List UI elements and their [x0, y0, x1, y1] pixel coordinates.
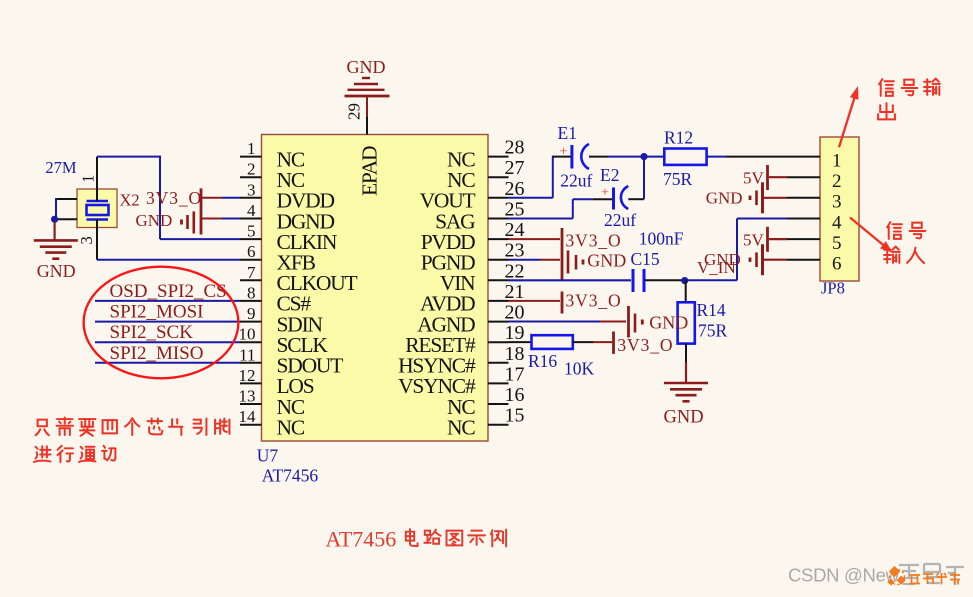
svg-text:75R: 75R: [663, 169, 693, 189]
annotation text: for communication: [34, 446, 50, 462]
wire crystal pin1 to CLKIN pin5: [97, 156, 240, 240]
connector JP8 body: [820, 137, 859, 281]
svg-text:21: 21: [505, 281, 525, 303]
svg-text:4: 4: [247, 201, 256, 220]
wire E1 to junction node: [589, 156, 664, 158]
wire net SPI2_MISO to pin 11: [95, 362, 240, 364]
wire VIN pin22 to C15: [509, 279, 632, 281]
junction node E1/E2/R12: [640, 153, 647, 160]
JP8 pin 2 stub: [787, 176, 820, 178]
svg-text:R14: R14: [697, 300, 726, 320]
wire DVDD pin3 to 3V3_O: [201, 197, 240, 199]
wire R16 to 3V3_O: [573, 341, 612, 343]
pin 14 (NC) left stub, number, name: [239, 407, 305, 439]
pin 22 (VIN) right stub, number, name: [440, 260, 525, 295]
wire net OSD_SPI2_CS to pin 8: [95, 300, 240, 302]
svg-text:GND: GND: [649, 313, 688, 333]
svg-text:7: 7: [247, 263, 256, 282]
pin 3 (DVDD) left stub, number, name: [240, 180, 334, 212]
svg-text:8: 8: [247, 283, 256, 302]
wire RESET# pin19 to R16: [509, 341, 532, 343]
wire V_IN junction to JP8 pin4: [687, 219, 787, 281]
svg-text:25: 25: [505, 199, 525, 221]
pin 24 (PVDD) right stub, number, name: [421, 219, 525, 254]
svg-text:22uf: 22uf: [560, 171, 592, 191]
pin 4 (DGND) left stub, number, name: [240, 201, 334, 233]
pin 15 (NC) right stub, number, name: [447, 405, 524, 440]
annotation text: only four chip pins needed: [36, 420, 49, 436]
svg-text:1: 1: [832, 151, 842, 172]
power port 3V3_O bar at PVDD merged with PGND ground big bar: [561, 228, 564, 280]
svg-text:E1: E1: [558, 123, 577, 143]
svg-text:9: 9: [247, 304, 256, 323]
svg-text:SPI2_MISO: SPI2_MISO: [110, 343, 204, 364]
svg-text:OSD_SPI2_CS: OSD_SPI2_CS: [110, 281, 227, 302]
power port 3V3_O bar and ground big bar at DVDD/DGND: [182, 188, 202, 234]
pin 27 (NC) right stub, number, name: [447, 157, 524, 192]
svg-text:GND: GND: [706, 188, 743, 207]
svg-text:16: 16: [505, 384, 525, 406]
capacitor C15: [633, 269, 644, 292]
svg-text:3V3_O: 3V3_O: [617, 335, 673, 355]
power port 3V3_O bar at R16: [612, 332, 615, 354]
wire AVDD pin21 to 3V3_O: [509, 300, 561, 302]
watermark gray CJK: [899, 564, 964, 585]
resistor R14 vertical: [678, 302, 695, 343]
capacitor E2 22uf polarized: [601, 186, 628, 210]
svg-text:1: 1: [247, 139, 256, 158]
pin 26 (VOUT) right stub, number, name: [420, 178, 525, 213]
wire junction to ground symbol: [53, 222, 55, 240]
svg-text:26: 26: [505, 178, 525, 200]
ground GND at crystal: [34, 240, 78, 258]
svg-text:29: 29: [345, 103, 364, 120]
pin 23 (PGND) right stub, number, name: [421, 240, 525, 275]
wire crystal pin3 to XFB pin6: [97, 259, 240, 261]
svg-text:GND: GND: [37, 261, 76, 281]
svg-text:3V3_O: 3V3_O: [566, 230, 622, 250]
annotation arrow signal output: [839, 86, 859, 147]
pin 19 (RESET#) right stub, number, name: [405, 322, 524, 357]
svg-text:GND: GND: [664, 408, 704, 428]
red highlight ellipse around SPI pins: [84, 267, 239, 379]
svg-text:SPI2_SCK: SPI2_SCK: [110, 322, 194, 343]
svg-text:JP8: JP8: [821, 279, 845, 298]
svg-text:20: 20: [505, 302, 525, 324]
svg-text:GND: GND: [587, 251, 626, 271]
annotation arrow signal input: [850, 218, 893, 254]
svg-text:AT7456: AT7456: [325, 526, 396, 551]
svg-text:23: 23: [505, 240, 525, 262]
svg-text:3V3_O: 3V3_O: [566, 290, 622, 310]
crystal X2 body: [77, 189, 117, 228]
ground bars at PGND: [568, 251, 583, 274]
annotation text input: [884, 247, 900, 263]
svg-text:3: 3: [247, 180, 256, 199]
svg-text:28: 28: [505, 137, 525, 159]
svg-text:2: 2: [832, 171, 842, 192]
svg-text:U7: U7: [257, 446, 279, 466]
pin 1 (NC) left stub, number, name: [240, 139, 305, 171]
pin 29 stub wire: [366, 97, 368, 135]
watermark logo: [887, 566, 905, 586]
ground at JP8 pin3: [750, 182, 787, 213]
svg-text:12: 12: [239, 366, 256, 385]
pin 21 (AVDD) right stub, number, name: [420, 281, 525, 316]
pin 9 (SDIN) left stub, number, name: [240, 304, 324, 336]
svg-text:R16: R16: [528, 351, 557, 371]
pin 8 (CS#) left stub, number, name: [240, 283, 311, 315]
wire PGND pin23 to ground: [509, 259, 561, 261]
pin 2 (NC) left stub, number, name: [240, 160, 305, 192]
svg-text:6: 6: [832, 254, 842, 275]
svg-text:4: 4: [832, 212, 842, 233]
svg-text:GND: GND: [136, 211, 173, 230]
pin 11 (SDOUT) left stub, number, name: [239, 345, 343, 377]
svg-text:24: 24: [505, 219, 525, 241]
wire PVDD pin24 to 3V3_O: [509, 238, 561, 240]
wire SAG pin25 to E2: [509, 199, 613, 218]
power port 5V at JP8 pin5: [768, 227, 788, 252]
svg-text:6: 6: [247, 242, 256, 261]
svg-text:C15: C15: [631, 249, 660, 269]
svg-text:10: 10: [239, 325, 256, 344]
annotation text signal output: [879, 79, 894, 96]
JP8 pin 5 stub: [787, 238, 820, 240]
pin 13 (NC) left stub, number, name: [239, 387, 305, 419]
JP8 pin 1 stub: [787, 156, 820, 158]
svg-text:10K: 10K: [564, 359, 595, 379]
svg-text:75R: 75R: [698, 321, 728, 341]
junction at crystal ground: [51, 216, 58, 223]
svg-text:13: 13: [239, 387, 256, 406]
svg-text:22: 22: [505, 260, 525, 282]
pin 16 (NC) right stub, number, name: [447, 384, 524, 419]
svg-text:+: +: [601, 186, 609, 201]
svg-text:GND: GND: [347, 57, 386, 77]
svg-text:NC: NC: [447, 416, 475, 440]
svg-text:2: 2: [247, 160, 256, 179]
pin 25 (SAG) right stub, number, name: [435, 199, 524, 234]
junction node C15/R14/V_IN: [681, 277, 688, 284]
IC U7 AT7456 chip body: [262, 135, 489, 442]
svg-text:11: 11: [239, 345, 255, 364]
wire R12 to JP8 pin1: [707, 156, 787, 158]
ground GND below R14: [664, 383, 708, 401]
svg-text:SPI2_MOSI: SPI2_MOSI: [110, 302, 204, 323]
JP8 pin 3 stub: [787, 197, 820, 199]
svg-text:+: +: [560, 145, 568, 160]
pin 7 (CLKOUT) left stub, number, name: [240, 263, 358, 295]
svg-text:17: 17: [505, 363, 525, 385]
svg-text:EPAD: EPAD: [358, 146, 382, 196]
pin 20 (AGND) right stub, number, name: [417, 302, 524, 337]
capacitor E1 22uf polarized: [560, 144, 589, 169]
svg-text:X2: X2: [120, 191, 140, 210]
wire R14 to ground: [685, 344, 687, 383]
wire E2 up to junction node: [628, 157, 644, 200]
svg-text:14: 14: [239, 407, 257, 426]
svg-text:100nF: 100nF: [639, 229, 684, 249]
svg-text:22uf: 22uf: [604, 210, 636, 230]
svg-text:19: 19: [505, 322, 525, 344]
crystal X2 symbol graphic: [87, 157, 109, 260]
svg-text:5: 5: [247, 222, 256, 241]
pin 17 (VSYNC#) right stub, number, name: [398, 363, 524, 398]
power port 5V at JP8 pin2: [768, 165, 788, 190]
wire VOUT pin26 up to E1: [509, 156, 571, 198]
JP8 pin 6 stub: [787, 259, 820, 261]
wire C15 to junction node: [646, 279, 683, 281]
wire net SPI2_MOSI to pin 9: [95, 321, 240, 323]
JP8 pin 4 stub: [787, 218, 820, 220]
svg-text:27M: 27M: [45, 158, 77, 177]
svg-text:NC: NC: [277, 416, 305, 440]
svg-text:15: 15: [505, 405, 525, 427]
svg-text:3V3_O: 3V3_O: [146, 188, 202, 208]
wire DGND pin4 to ground: [201, 218, 240, 220]
pin 10 (SCLK) left stub, number, name: [239, 325, 329, 357]
pin 5 (CLKIN) left stub, number, name: [240, 222, 338, 254]
svg-text:3: 3: [77, 236, 96, 244]
svg-text:R12: R12: [664, 128, 693, 148]
watermark text yanshang tech: [910, 573, 961, 585]
svg-text:AT7456: AT7456: [262, 466, 319, 486]
power port 3V3_O bar at AVDD: [561, 292, 564, 314]
pin 12 (LOS) left stub, number, name: [239, 366, 314, 398]
ground at JP8 pin6: [750, 244, 787, 275]
svg-text:E2: E2: [600, 165, 619, 185]
pin 6 (XFB) left stub, number, name: [240, 242, 316, 274]
svg-text:1: 1: [78, 175, 97, 183]
svg-text:GND: GND: [704, 250, 741, 269]
resistor R16: [532, 335, 573, 349]
svg-text:CSDN @New: CSDN @New: [788, 565, 900, 586]
wire AGND pin20 to ground: [509, 321, 627, 323]
svg-text:3: 3: [832, 192, 842, 213]
ground bars at AGND: [629, 306, 643, 338]
svg-text:5: 5: [832, 233, 842, 254]
wire net SPI2_SCK to pin 10: [95, 341, 240, 343]
wire junction down to R14: [685, 280, 687, 302]
resistor R12: [664, 149, 706, 165]
pin 28 (NC) right stub, number, name: [447, 137, 524, 172]
wire crystal left to ground junction: [54, 198, 77, 219]
svg-text:18: 18: [505, 343, 525, 365]
power ground GND top (inverted, above pin 29): [345, 57, 390, 96]
pin 18 (HSYNC#) right stub, number, name: [398, 343, 524, 378]
svg-text:27: 27: [505, 157, 525, 179]
annotation text signal: [887, 222, 902, 239]
